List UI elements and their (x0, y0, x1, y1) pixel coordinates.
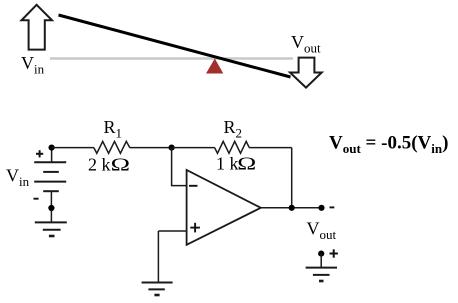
node output/feedback junction (289, 205, 295, 211)
node output terminal (318, 205, 324, 211)
wire feedback down to output node (291, 148, 293, 208)
gray reference line (50, 57, 293, 60)
svg-text:Ω: Ω (237, 153, 256, 173)
node A (R1/R2/inverting junction) (169, 145, 175, 151)
down arrow (Vout) (290, 58, 322, 88)
svg-text:R2: R2 (224, 117, 243, 141)
wire noninverting input (158, 230, 186, 232)
label + (ground terminal) (330, 249, 338, 257)
wire top rail to R1 (52, 147, 94, 149)
svg-text:Vout: Vout (307, 218, 337, 242)
svg-text:R1: R1 (104, 117, 123, 141)
label + (battery) (36, 150, 43, 157)
resistor R2 (215, 141, 250, 153)
svg-text:Ω: Ω (111, 155, 130, 175)
node battery negative (48, 205, 54, 211)
node battery positive (49, 145, 55, 151)
wire node A down to inverting input (172, 148, 187, 186)
ground (output) (306, 268, 337, 281)
ground (battery) (35, 222, 67, 236)
lever beam (59, 15, 291, 77)
wire R2 to feedback corner (249, 147, 292, 149)
label - (inverting input) (189, 185, 198, 187)
svg-text:1 k: 1 k (216, 153, 239, 173)
label - (battery) (34, 198, 39, 200)
fulcrum (206, 59, 223, 74)
up arrow (Vin) (22, 5, 53, 50)
svg-text:2 k: 2 k (88, 155, 111, 175)
svg-text:Vout: Vout (291, 32, 321, 56)
label - (output terminal) (330, 206, 335, 208)
svg-text:Vin: Vin (6, 165, 30, 189)
ground (noninverting) (142, 283, 173, 296)
wire battery+ up to top rail (51, 148, 53, 163)
label + (noninverting input) (190, 223, 200, 233)
svg-text:Vin: Vin (21, 53, 45, 77)
wire output (261, 207, 322, 209)
wire terminal down to ground (320, 254, 322, 268)
wire battery- down to ground (50, 191, 52, 222)
op-amp U1 (187, 170, 261, 245)
resistor R1 (94, 141, 130, 153)
wire noninverting down to ground (157, 231, 159, 283)
node ground terminal (318, 251, 324, 257)
wire R1 to node A (130, 147, 172, 149)
battery Vin (34, 162, 66, 191)
svg-text:Vout = -0.5(Vin): Vout = -0.5(Vin) (329, 133, 448, 157)
wire node A to R2 (172, 147, 215, 149)
